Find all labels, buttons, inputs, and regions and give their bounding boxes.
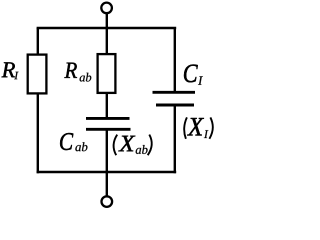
wire: right branch top: [174, 28, 176, 93]
label C_ab: [60, 133, 73, 150]
node: top terminal: [101, 3, 112, 14]
paren left of (X_ab): [114, 135, 118, 156]
wire: top bus: [37, 27, 177, 29]
resistor R_ab: [98, 54, 116, 93]
wire: left branch bottom: [37, 93, 39, 173]
wire: C_ab to bottom bus: [106, 129, 108, 173]
label (X_ab): [118, 136, 135, 152]
label R_I: [1, 62, 15, 77]
capacitor C_I bottom plate: [156, 104, 194, 107]
wire: top terminal to top bus: [106, 13, 108, 30]
wire: bottom bus: [37, 171, 177, 173]
capacitor C_ab top plate: [86, 117, 130, 120]
paren right of (X_ab): [148, 135, 152, 156]
label C_I: [184, 65, 198, 83]
node: bottom terminal: [102, 196, 113, 207]
wire: middle branch top: [106, 28, 108, 55]
paren left of (X_I): [184, 117, 187, 138]
paren right of (X_I): [209, 117, 212, 138]
wire: C_I to bottom bus: [174, 105, 176, 173]
label (X_I): [187, 118, 204, 135]
label R_ab: [64, 63, 77, 78]
capacitor C_ab bottom plate: [86, 128, 131, 131]
wire: bottom bus to bottom terminal: [106, 172, 108, 196]
wire: left branch top: [37, 28, 39, 55]
resistor R_I: [28, 55, 47, 94]
capacitor C_I top plate: [153, 91, 196, 94]
wire: R_ab to C_ab: [106, 93, 108, 120]
